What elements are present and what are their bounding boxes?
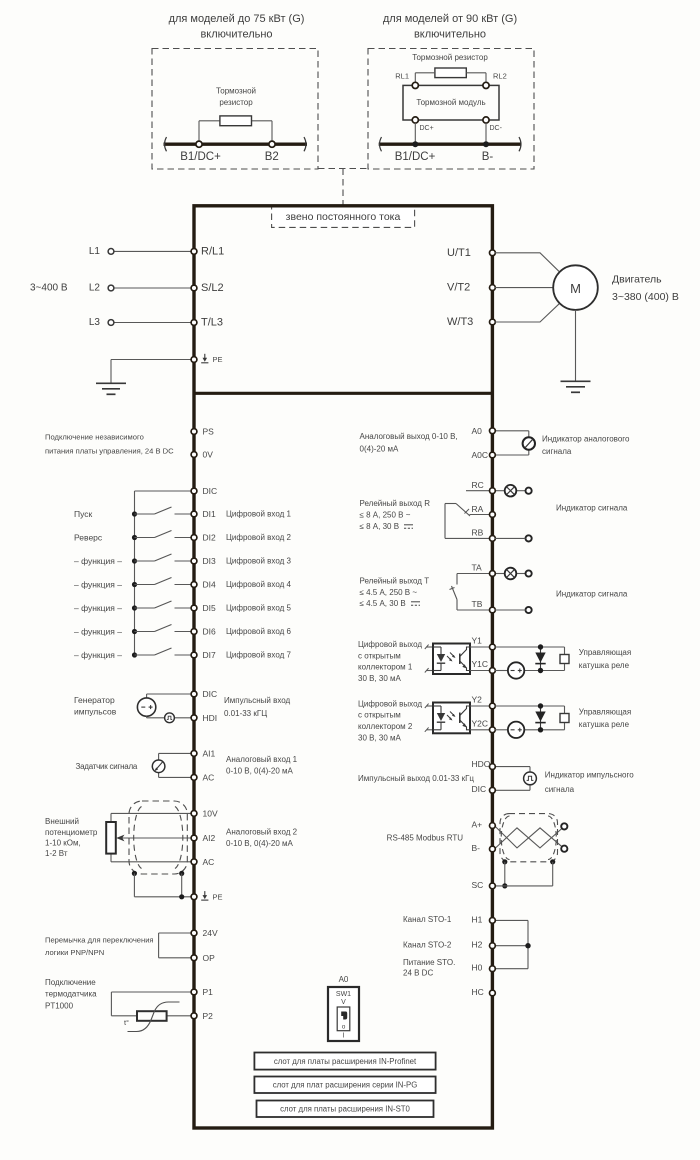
terminal HDO [472,759,496,769]
svg-text:S/L2: S/L2 [201,282,224,294]
svg-text:HDI: HDI [203,713,218,723]
svg-text:B1/DC+: B1/DC+ [395,151,436,163]
svg-text:RL1: RL1 [395,72,409,81]
wire STO jumpers H1-H2-H0 [494,920,530,968]
terminal PE (power) [191,354,222,364]
svg-text:DC-: DC- [490,125,503,132]
terminal DI3 [191,556,291,566]
svg-text:слот для платы расширения IN-P: слот для платы расширения IN-Profinet [274,1057,417,1066]
slot: expansion cards IN-PG series [254,1077,435,1094]
terminal T/L3 [191,317,223,329]
terminal S/L2 [191,282,224,294]
svg-text:PS: PS [203,427,215,437]
wire DIC(pulse) to generator [147,694,192,698]
svg-text:Тормозной модуль: Тормозной модуль [416,98,485,107]
twisted pair RS-485 [494,826,564,849]
switch input DI4 (– функция –) [74,578,192,590]
power/control separator line [194,392,492,395]
terminal H1 [472,914,496,924]
svg-text:B-: B- [482,151,494,163]
svg-text:SW1: SW1 [336,991,351,998]
svg-text:включительно: включительно [200,29,272,41]
terminal U/T1 [447,247,495,259]
svg-text:30 В, 30 мА: 30 В, 30 мА [358,674,402,683]
svg-text:0.01-33 кГЦ: 0.01-33 кГЦ [224,709,267,718]
svg-text:HC: HC [472,987,484,997]
terminal P2 [191,1011,213,1021]
svg-text:A0: A0 [339,975,349,984]
svg-text:Цифровой вход 6: Цифровой вход 6 [226,627,291,636]
node RB external [494,535,531,541]
pin DC+ [412,117,434,132]
shielded cable (analog input 2) [129,801,187,874]
pulse symbol on HDI wire [165,713,175,723]
svg-text:RS-485 Modbus RTU: RS-485 Modbus RTU [387,834,464,843]
terminal DIC (pulse out common) [472,784,496,794]
svg-text:Тормозной резистор: Тормозной резистор [412,53,488,62]
motor M [553,265,679,310]
wire PE input to ground [111,360,192,384]
svg-text:L1: L1 [89,246,101,257]
node L1 [89,246,114,257]
svg-text:0-10 В, 0(4)-20 мА: 0-10 В, 0(4)-20 мА [226,767,294,776]
terminal DI1 [191,509,291,519]
svg-text:DI1: DI1 [203,509,217,519]
brake module box U-BRK [403,85,499,120]
shield of RS-485 cable [500,814,558,862]
label: signal indicator (R) [556,504,628,513]
svg-text:A+: A+ [472,819,483,829]
svg-text:катушка реле: катушка реле [579,720,630,729]
diode: flyback VD2 [535,703,545,732]
svg-text:≤ 8 А, 250 В ~: ≤ 8 А, 250 В ~ [360,511,411,520]
relay coil K1 [560,648,631,670]
terminal R/L1 [191,245,224,257]
svg-text:сигнала: сигнала [545,785,575,794]
svg-text:DI2: DI2 [203,533,217,543]
svg-text:Питание STO.: Питание STO. [403,958,455,967]
bus end break marks [165,137,307,151]
svg-text:L2: L2 [89,283,101,294]
svg-text:V/T2: V/T2 [447,282,470,294]
svg-text:H0: H0 [472,963,483,973]
svg-text:Импульсный выход 0.01-33 кГц: Импульсный выход 0.01-33 кГц [358,774,474,783]
ground (motor) [561,381,591,392]
wire DC+ / DC- to bus [415,123,486,144]
svg-text:Цифровой выход: Цифровой выход [358,640,422,649]
ground (input PE) [96,383,126,394]
svg-text:Канал STO-2: Канал STO-2 [403,941,452,950]
svg-text:B2: B2 [265,151,279,163]
label box: zveno postoyannogo toka (DC link) [272,206,415,228]
label: analog input 1 [226,755,298,776]
label: analog input 2 [226,828,298,849]
node TB external [494,607,531,613]
switch input DI3 (– функция –) [74,554,192,566]
terminal TA [472,563,496,577]
svg-text:H1: H1 [472,914,483,924]
svg-text:H2: H2 [472,940,483,950]
shield drain junctions [132,871,192,900]
svg-text:AC: AC [203,857,215,867]
pin DC- [483,117,503,132]
svg-text:1-2 Вт: 1-2 Вт [45,849,68,858]
terminal W/T3 [447,316,495,328]
svg-text:V: V [341,999,346,1006]
svg-text:PE: PE [213,892,223,901]
terminal H0 [472,963,496,973]
lamp: signal indicator (relay T) [505,568,517,580]
DC bus line B1/DC+ - B- (right box) [379,142,522,145]
wire HDO loop [494,767,530,791]
label: signal indicator (T) [556,590,628,599]
svg-text:≤ 8 А, 30 В: ≤ 8 А, 30 В [360,522,400,531]
terminal AI1 [191,748,215,758]
terminal H2 [472,940,496,950]
potentiometer: signal setter RP1 [76,760,165,773]
svg-text:P1: P1 [203,987,214,997]
svg-text:импульсов: импульсов [74,707,117,717]
junction B- [482,141,494,163]
terminal AC (analog common 1) [191,772,214,782]
svg-text:≤ 4.5 А, 30 В: ≤ 4.5 А, 30 В [360,599,406,608]
svg-text:Аналоговый вход 1: Аналоговый вход 1 [226,755,298,764]
pin RL2 [483,72,507,89]
svg-text:Задатчик сигнала: Задатчик сигнала [76,762,138,771]
terminal Y1 [472,636,496,650]
slot: expansion card IN-Profinet [254,1053,435,1070]
wire SC shield drain [494,859,555,888]
wire L3 to T/L3 [114,322,192,324]
svg-text:с открытым: с открытым [358,711,401,720]
optocoupler U2 (open collector 2) [425,703,490,734]
label: analog output [360,432,458,454]
switch SW1 (A0 V/I selector) [328,975,359,1041]
node A+ external [561,823,567,829]
svg-text:звено постоянного тока: звено постоянного тока [286,211,401,223]
thermistor PT1000 [45,978,180,1032]
svg-text:Y1: Y1 [472,636,483,646]
svg-text:DC+: DC+ [420,125,434,132]
svg-text:3~400 В: 3~400 В [30,283,68,294]
terminal TB [472,599,496,613]
svg-text:Релейный выход Т: Релейный выход Т [360,577,430,586]
svg-text:для моделей от 90 кВт (G): для моделей от 90 кВт (G) [383,13,517,25]
svg-text:Цифровой выход: Цифровой выход [358,699,422,708]
terminal V/T2 [447,282,495,294]
potentiometer: external 1-10 kOhm [45,817,116,858]
svg-text:Пуск: Пуск [74,509,93,519]
switch input DI5 (– функция –) [74,601,192,613]
dashed link from option boxes to DC link [318,169,368,206]
svg-text:термодатчика: термодатчика [45,990,97,999]
svg-text:3~380 (400) В: 3~380 (400) В [612,291,679,303]
svg-text:Импульсный вход: Импульсный вход [224,696,291,705]
svg-text:– функция –: – функция – [74,650,122,660]
svg-text:0(4)-20 мА: 0(4)-20 мА [360,445,400,454]
svg-text:B1/DC+: B1/DC+ [180,151,221,163]
svg-text:Управляющая: Управляющая [579,707,631,716]
inverter main box [194,206,492,1128]
svg-text:RB: RB [472,528,484,538]
svg-text:слот для платы расширения IN-S: слот для платы расширения IN-ST0 [280,1105,410,1114]
svg-text:B-: B- [472,843,481,853]
svg-text:DI5: DI5 [203,603,217,613]
terminal DIC (digital common) [191,486,217,496]
svg-text:Тормозной: Тормозной [216,87,256,96]
svg-text:– функция –: – функция – [74,627,122,637]
svg-text:AC: AC [203,772,215,782]
wire generator to HDI [147,716,192,718]
svg-text:Y1C: Y1C [472,659,489,669]
diode: flyback VD1 [535,644,545,673]
label 3~400V supply [30,283,68,294]
terminal A0C [472,450,496,460]
wire AC from potentiometer bottom [111,854,192,862]
pulse generator source G1 [74,695,156,717]
svg-text:Цифровой вход 1: Цифровой вход 1 [226,510,291,519]
svg-text:Генератор: Генератор [74,695,115,705]
svg-text:Аналоговый вход 2: Аналоговый вход 2 [226,828,298,837]
wire 10V to potentiometer [111,813,192,822]
label: digital output open collector 1 [358,640,422,683]
wire A0 indicator loop [494,431,528,455]
svg-text:Подключение независимого: Подключение независимого [45,433,144,442]
switch input DI2 (Реверс) [74,531,192,543]
wire resistor to module RL1/RL2 [415,73,486,83]
svg-text:Индикатор сигнала: Индикатор сигнала [556,590,628,599]
svg-text:Цифровой вход 4: Цифровой вход 4 [226,580,291,589]
node TA external [526,570,532,576]
jumper PNP/NPN between 24V and OP [45,933,192,958]
svg-text:Управляющая: Управляющая [579,648,631,657]
svg-text:питания платы управления, 24 В: питания платы управления, 24 В DC [45,447,174,456]
svg-text:Y2: Y2 [472,695,483,705]
terminal PS [191,427,214,437]
svg-text:– функция –: – функция – [74,556,122,566]
terminal RA [472,504,496,518]
terminal SC [472,880,496,890]
label: relay output R [360,499,431,531]
svg-text:сигнала: сигнала [542,447,572,456]
svg-text:Подключение: Подключение [45,978,96,987]
dashed option box (<=75kW) [152,49,318,170]
svg-text:коллектором 1: коллектором 1 [358,663,413,672]
svg-text:RA: RA [472,504,484,514]
label: digital output open collector 2 [358,699,422,742]
svg-text:R/L1: R/L1 [201,245,224,257]
label: external 24V control supply [45,433,174,456]
terminal AC (analog common 2) [191,857,214,867]
svg-text:TB: TB [472,599,483,609]
svg-text:DIC: DIC [203,689,218,699]
switch input DI7 (– функция –) [74,648,192,660]
svg-text:P2: P2 [203,1011,214,1021]
svg-text:24 В DC: 24 В DC [403,969,433,978]
svg-text:DI4: DI4 [203,580,217,590]
svg-text:10V: 10V [203,808,218,818]
svg-text:логики PNP/NPN: логики PNP/NPN [45,948,104,957]
wire AI2 wiper [116,835,192,842]
svg-text:Релейный выход R: Релейный выход R [360,499,431,508]
node B- external [561,846,567,852]
relay R contact [445,504,494,539]
wire P1 to thermistor [111,992,192,1016]
wire L2 to S/L2 [114,287,192,289]
node RC external [526,488,532,494]
terminal 24V [191,928,218,938]
wire AI1 loop to setter [159,753,192,777]
terminal HDI [191,713,217,723]
terminal B- [472,843,496,853]
terminal DI5 [191,603,291,613]
svg-text:A0C: A0C [472,450,489,460]
terminal DI2 [191,533,291,543]
svg-text:W/T3: W/T3 [447,316,473,328]
labels STO channels [403,915,455,978]
terminal 10V [191,808,218,818]
DC source for Y2 [508,722,524,738]
svg-text:– функция –: – функция – [74,603,122,613]
DC source for Y1 [508,662,524,678]
label: pulse signal indicator [545,771,635,795]
optocoupler U1 (open collector 1) [425,644,490,675]
svg-text:Индикатор сигнала: Индикатор сигнала [556,504,628,513]
svg-text:DI6: DI6 [203,627,217,637]
lamp: signal indicator (relay R) [505,485,517,497]
svg-text:Индикатор импульсного: Индикатор импульсного [545,771,635,780]
svg-text:катушка реле: катушка реле [579,661,630,670]
node L3 [89,317,114,328]
svg-text:Цифровой вход 5: Цифровой вход 5 [226,604,291,613]
svg-text:U/T1: U/T1 [447,247,471,259]
svg-text:t°: t° [124,1018,129,1027]
terminal Y2C [472,718,496,732]
svg-text:Аналоговый выход 0-10 В,: Аналоговый выход 0-10 В, [360,432,458,441]
terminal RB [472,528,496,542]
svg-text:30 В, 30 мА: 30 В, 30 мА [358,733,402,742]
slot: expansion card IN-STO [257,1101,434,1118]
svg-text:потенциометр: потенциометр [45,828,98,837]
label RS-485 Modbus RTU [387,834,464,843]
wire resistor to bus [199,121,272,141]
node L2 [89,283,114,294]
wire V/T2 to motor [494,287,553,289]
wire W/T3 to motor [494,303,559,322]
svg-text:Цифровой вход 2: Цифровой вход 2 [226,533,291,542]
svg-text:24V: 24V [203,928,218,938]
terminal DI7 [191,650,291,660]
wire TA to lamp [494,573,525,575]
terminal AI2 [191,833,215,843]
bus end break marks (right) [380,137,522,151]
svg-text:Y2C: Y2C [472,718,489,728]
svg-text:DIC: DIC [203,486,218,496]
terminal A0 [472,426,496,436]
wire motor to ground [575,310,577,381]
wire DIC common [135,491,193,655]
terminal P1 [191,987,213,997]
svg-text:1-10 кОм,: 1-10 кОм, [45,839,81,848]
node B1/DC+ (left box) [180,141,221,163]
svg-text:RL2: RL2 [493,72,507,81]
svg-text:PT1000: PT1000 [45,1002,74,1011]
terminal OP [191,953,215,963]
terminal HC [472,987,496,997]
title: braking resistor option up to 75 kW [169,13,305,41]
dashed option box (>=90kW) [368,49,534,170]
wire U/T1 to motor [494,253,559,272]
terminal RC [472,480,496,494]
svg-text:OP: OP [203,953,216,963]
terminal 0V [191,450,213,460]
wire RC to lamp [466,490,526,492]
svg-text:Цифровой вход 7: Цифровой вход 7 [226,651,291,660]
svg-text:DI7: DI7 [203,650,217,660]
svg-text:L3: L3 [89,317,101,328]
wire L1 to R/L1 [114,250,192,252]
terminal A+ [472,819,496,829]
terminal Y2 [472,695,496,709]
pin RL1 [395,72,418,89]
switch input DI1 (Пуск) [74,507,192,519]
svg-text:I: I [343,1033,345,1040]
switch input DI6 (– функция –) [74,625,192,637]
svg-text:коллектором 2: коллектором 2 [358,722,413,731]
svg-text:– функция –: – функция – [74,580,122,590]
terminal Y1C [472,659,496,673]
svg-text:TA: TA [472,563,483,573]
svg-text:для моделей до 75 кВт (G): для моделей до 75 кВт (G) [169,13,305,25]
svg-text:Перемычка для переключения: Перемычка для переключения [45,936,154,945]
svg-text:T/L3: T/L3 [201,317,223,329]
svg-text:SC: SC [472,880,484,890]
svg-text:Двигатель: Двигатель [612,273,662,285]
title: braking module option from 90 kW [383,13,517,41]
terminal PE (analog shield) [191,891,222,901]
svg-text:Реверс: Реверс [74,533,103,543]
svg-text:RC: RC [472,480,484,490]
svg-text:PE: PE [213,355,223,364]
svg-text:A0: A0 [472,426,483,436]
DC bus line B1/DC+ - B2 [164,142,308,145]
svg-text:DI3: DI3 [203,556,217,566]
junction B1/DC+ (right box) [395,141,436,163]
terminal DIC (pulse) [191,689,217,699]
label: relay output T [360,577,430,609]
svg-text:Внешний: Внешний [45,817,79,826]
relay T contact [450,574,495,611]
svg-text:AI1: AI1 [203,748,216,758]
resistor: braking resistor (<=75kW) [216,87,256,126]
node B2 [265,141,279,163]
wire Y1 to relay coil [494,647,564,671]
svg-text:AI2: AI2 [203,833,216,843]
analog signal indicator meter [523,435,630,457]
wire Y2 to relay coil [494,706,564,730]
svg-text:слот для плат расширения серии: слот для плат расширения серии IN-PG [273,1081,418,1090]
svg-text:Цифровой вход 3: Цифровой вход 3 [226,557,291,566]
svg-text:Канал STO-1: Канал STO-1 [403,915,452,924]
terminal DI4 [191,580,291,590]
resistor: braking resistor (>=90kW) [412,53,488,78]
label: pulse output [358,774,474,783]
svg-text:Индикатор аналогового: Индикатор аналогового [542,435,630,444]
pulse indicator on HDO [524,772,537,785]
svg-text:включительно: включительно [414,29,486,41]
svg-text:резистор: резистор [219,98,253,107]
svg-text:M: M [570,281,581,296]
